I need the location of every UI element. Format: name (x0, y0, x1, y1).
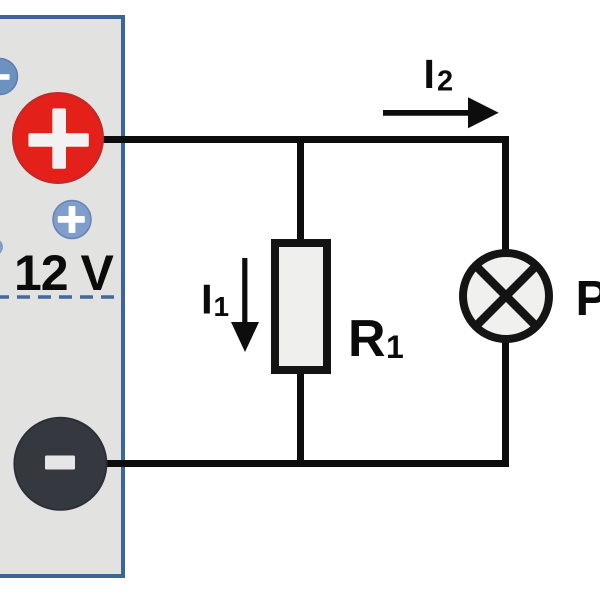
svg-text:1: 1 (386, 329, 404, 365)
svg-text:R: R (348, 310, 386, 368)
svg-text:1: 1 (214, 291, 230, 322)
svg-text:I: I (424, 51, 435, 97)
svg-text:I: I (201, 276, 213, 323)
svg-text:12 V: 12 V (14, 245, 115, 301)
svg-text:P: P (576, 272, 600, 326)
svg-text:2: 2 (437, 66, 453, 98)
